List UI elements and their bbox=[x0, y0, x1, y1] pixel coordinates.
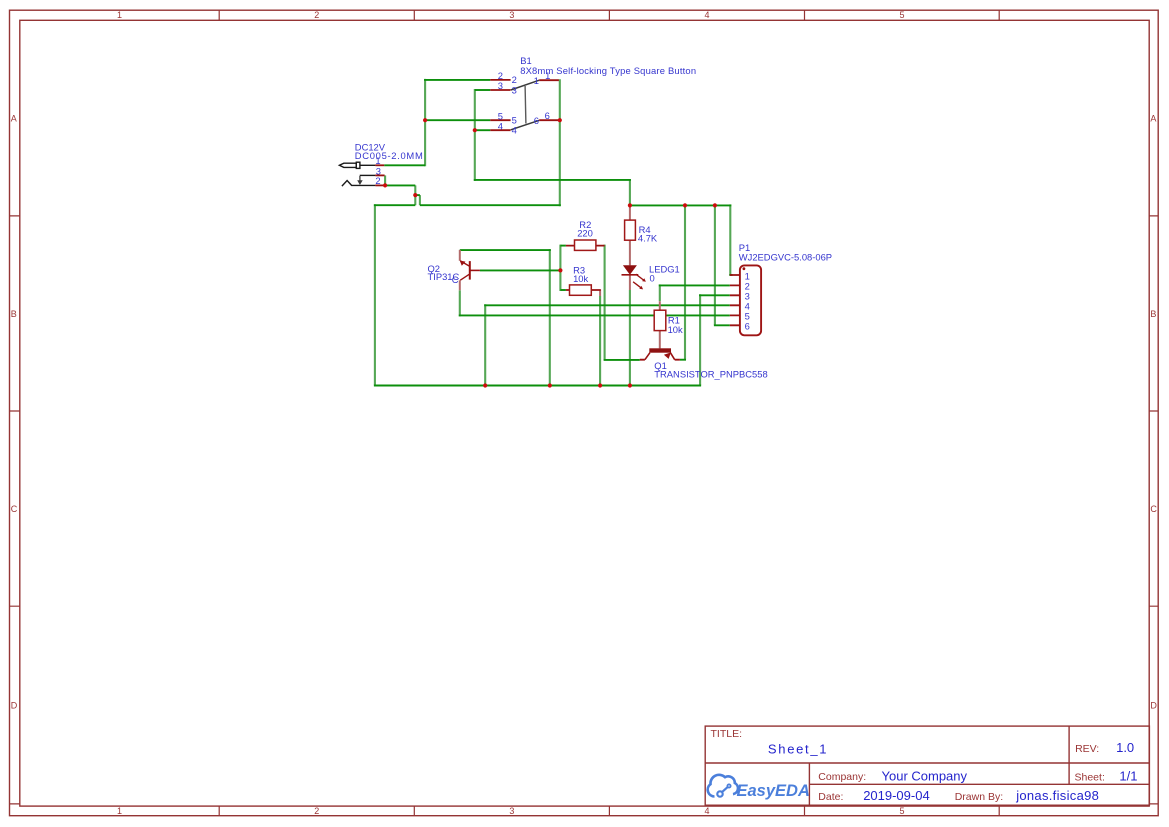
junction at +12V rail / Q1 emitter bbox=[683, 203, 687, 207]
junction at button pin6 bbox=[558, 118, 562, 122]
svg-text:A: A bbox=[1150, 113, 1156, 123]
R3 right corner lead bbox=[599, 290, 601, 297]
wire horizontal: P1 pin3 row bbox=[699, 294, 730, 296]
P1 pin numbers bbox=[745, 270, 750, 331]
svg-text:5: 5 bbox=[899, 806, 904, 816]
DC jack pin stubs bbox=[375, 165, 384, 185]
svg-text:jonas.fisica98: jonas.fisica98 bbox=[1015, 788, 1099, 803]
junction at button pin5 branch bbox=[423, 118, 427, 122]
svg-text:1.0: 1.0 bbox=[1116, 740, 1134, 755]
wire vertical: +12V rail to P1 pin1 bbox=[729, 204, 731, 275]
wire vertical: top rail down to +12V rail bbox=[629, 179, 631, 205]
resistor R3 horizontal leads bbox=[566, 289, 601, 291]
wire horizontal: jog link bbox=[415, 194, 420, 196]
wire horizontal: button pin5 feed bbox=[424, 119, 490, 121]
wire horizontal: P1 pin2 row bbox=[659, 284, 730, 286]
svg-text:2: 2 bbox=[375, 175, 380, 186]
svg-text:6: 6 bbox=[534, 115, 539, 126]
resistor R4 vertical leads bbox=[629, 205, 631, 265]
svg-text:4: 4 bbox=[704, 10, 709, 20]
svg-text:4: 4 bbox=[512, 125, 517, 136]
transistor Q2 (TIP31C) bbox=[460, 261, 480, 281]
svg-text:6: 6 bbox=[545, 110, 550, 121]
svg-text:2019-09-04: 2019-09-04 bbox=[863, 788, 930, 803]
svg-text:B: B bbox=[11, 309, 17, 319]
wire horizontal: P1 pin4 row bbox=[484, 304, 730, 306]
svg-text:1: 1 bbox=[117, 10, 122, 20]
svg-text:1: 1 bbox=[117, 806, 122, 816]
wire horizontal: GND bottom rail bbox=[374, 385, 701, 387]
junction at GND rail / LED cathode bbox=[628, 383, 632, 387]
svg-text:3: 3 bbox=[509, 806, 514, 816]
frame row letters right bbox=[1150, 113, 1157, 710]
svg-text:3: 3 bbox=[509, 10, 514, 20]
DC jack pin numbers bbox=[375, 155, 381, 186]
wire horizontal: button pin3 feed bbox=[475, 89, 491, 91]
svg-text:DC005-2.0MM: DC005-2.0MM bbox=[355, 150, 424, 161]
svg-text:6: 6 bbox=[745, 320, 750, 331]
resistor R1 body bbox=[654, 310, 666, 330]
svg-text:10k: 10k bbox=[573, 273, 588, 284]
wire vertical: left GND drop bbox=[374, 204, 376, 385]
wire vertical: LED cathode to GND rail bbox=[629, 290, 631, 386]
svg-text:Drawn By:: Drawn By: bbox=[955, 791, 1003, 803]
svg-text:10k: 10k bbox=[668, 324, 683, 335]
svg-text:Company:: Company: bbox=[818, 771, 866, 783]
wire vertical: jack pin3 to pin2 bbox=[384, 175, 386, 185]
svg-text:0: 0 bbox=[650, 273, 655, 284]
svg-text:1: 1 bbox=[545, 70, 550, 81]
junction at +12V rail / P1 pin6 bbox=[713, 203, 717, 207]
wire vertical: +12V rail to P1 pin6 bbox=[714, 204, 716, 325]
svg-text:D: D bbox=[1150, 700, 1157, 710]
wire horizontal: Q1 collector run bbox=[604, 359, 640, 361]
button B1 pin stubs bbox=[490, 80, 559, 130]
wire horizontal: button pin2 feed bbox=[424, 79, 490, 81]
wire horizontal: button pin4 feed bbox=[475, 129, 491, 131]
resistor R2 body bbox=[575, 240, 596, 250]
wire vertical: Q2 emitter down to GND rail bbox=[549, 249, 551, 385]
wire horizontal: jack pin1 to riser bbox=[384, 164, 425, 166]
wire vertical: jog at junction bbox=[419, 195, 421, 205]
resistor R4 body bbox=[625, 220, 636, 240]
junction at +12V rail / R4 bbox=[628, 203, 632, 207]
LED LEDG1 cathode lead bbox=[629, 275, 631, 290]
transistor Q1 (PNP BC558) bbox=[645, 348, 675, 359]
wire vertical: R3 right down to GND rail bbox=[599, 296, 601, 386]
svg-text:2: 2 bbox=[512, 74, 517, 85]
svg-text:TRANSISTOR_PNPBC558: TRANSISTOR_PNPBC558 bbox=[654, 369, 767, 380]
wire vertical: jack pin2 node down bbox=[414, 185, 416, 205]
junction at DC jack pin2 bbox=[383, 183, 387, 187]
title block bbox=[705, 726, 1149, 805]
svg-text:Your Company: Your Company bbox=[882, 769, 968, 784]
B1 pin numbers bbox=[498, 70, 551, 131]
P1 pin stubs bbox=[730, 275, 740, 325]
junction at GND rail / R3 bbox=[598, 383, 602, 387]
button B1 switch arms bbox=[511, 80, 539, 130]
frame row letters left bbox=[11, 113, 18, 710]
wire horizontal: lower rail left part bbox=[374, 204, 415, 206]
frame column numbers bottom bbox=[117, 806, 905, 816]
wire horizontal: jack pin2 node bbox=[385, 184, 415, 186]
wire horizontal: +12V rail bbox=[629, 204, 731, 206]
wire horizontal: P1 pin5 row bbox=[459, 314, 730, 316]
junction at GND rail / Q2 emitter bbox=[548, 383, 552, 387]
EasyEDA logo bbox=[708, 775, 738, 797]
junction at Q2 base / R2 R3 bbox=[558, 268, 562, 272]
svg-text:C: C bbox=[11, 504, 18, 514]
wire horizontal: top distribution rail bbox=[474, 179, 631, 181]
svg-text:D: D bbox=[11, 700, 18, 710]
svg-text:B: B bbox=[1150, 309, 1156, 319]
transistor Q1 collector/emitter leads bbox=[640, 359, 680, 361]
wire vertical: button pins 3,4 down bbox=[474, 89, 476, 181]
P1 pin-1 marker bbox=[743, 267, 746, 270]
wire horizontal: Q2 emitter top run bbox=[460, 249, 551, 251]
svg-text:4.7K: 4.7K bbox=[638, 233, 658, 244]
transistor Q2 emitter/collector leads bbox=[459, 250, 461, 290]
svg-text:4: 4 bbox=[704, 806, 709, 816]
svg-text:220: 220 bbox=[577, 227, 593, 238]
wire horizontal: P1 pin6 link bbox=[714, 324, 730, 326]
connector P1 body bbox=[740, 265, 761, 335]
wire vertical: P1 pin3 to GND rail bbox=[699, 294, 701, 385]
wire vertical: R2/R3 left link bbox=[559, 245, 561, 291]
junction at input net jog bbox=[413, 193, 417, 197]
svg-text:3: 3 bbox=[512, 85, 517, 96]
svg-text:1: 1 bbox=[534, 75, 539, 86]
svg-text:EasyEDA: EasyEDA bbox=[737, 782, 810, 800]
svg-text:C: C bbox=[452, 274, 459, 285]
junction at GND rail / P1 pin4 bbox=[483, 383, 487, 387]
wire vertical: button pins 1,6 down to lower rail bbox=[559, 79, 561, 206]
resistor R1 vertical leads bbox=[659, 301, 661, 348]
svg-text:A: A bbox=[11, 113, 17, 123]
resistor R3 body bbox=[570, 285, 592, 295]
svg-text:WJ2EDGVC-5.08-06P: WJ2EDGVC-5.08-06P bbox=[739, 252, 832, 263]
wire vertical: +12V rail to Q1 emitter bbox=[684, 204, 686, 359]
svg-text:2: 2 bbox=[314, 806, 319, 816]
wire vertical: P1 pin2 row to R1 bbox=[659, 284, 661, 301]
svg-text:Sheet_1: Sheet_1 bbox=[768, 741, 828, 756]
junction at button pin4 branch bbox=[473, 128, 477, 132]
svg-text:2: 2 bbox=[314, 10, 319, 20]
wire horizontal: lower rail right part bbox=[420, 204, 561, 206]
svg-text:1/1: 1/1 bbox=[1119, 769, 1137, 784]
wire horizontal: P1 pin1 link bbox=[729, 274, 732, 276]
wire vertical: Q2 collector to pin5 row bbox=[459, 290, 461, 316]
svg-text:REV:: REV: bbox=[1075, 743, 1099, 755]
wire horizontal: R3 left link stub bbox=[560, 289, 566, 291]
svg-text:C: C bbox=[1150, 504, 1157, 514]
svg-text:Date:: Date: bbox=[818, 791, 843, 803]
wire vertical: DC jack pin1 up to button pin2 bbox=[424, 79, 426, 166]
svg-text:TITLE:: TITLE: bbox=[711, 728, 743, 740]
svg-text:5: 5 bbox=[899, 10, 904, 20]
LED LEDG1 symbol bbox=[622, 265, 646, 289]
svg-text:4: 4 bbox=[498, 120, 503, 131]
wire vertical: R2 right down to Q1 collector bbox=[604, 245, 606, 360]
wire horizontal: Q2 base run bbox=[480, 269, 562, 271]
frame column numbers top bbox=[117, 10, 905, 20]
wire vertical: P1 pin4 row to GND rail bbox=[484, 304, 486, 385]
DC jack DC12V (DC005-2.0MM) bbox=[339, 162, 375, 186]
wire horizontal: Q1 emitter link bbox=[680, 359, 686, 361]
resistor R2 horizontal leads bbox=[566, 245, 605, 247]
svg-text:3: 3 bbox=[498, 80, 503, 91]
wire horizontal: R2 left link stub bbox=[560, 245, 566, 247]
svg-text:Sheet:: Sheet: bbox=[1075, 772, 1105, 784]
